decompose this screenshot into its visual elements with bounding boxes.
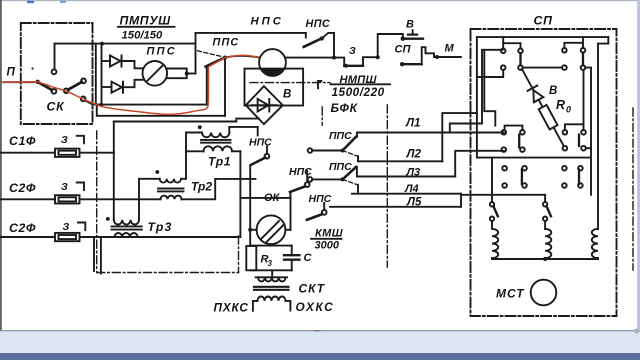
svg-text:ППС: ППС xyxy=(329,130,352,142)
wire vertical x195 xyxy=(195,33,197,74)
NPS machine circle xyxy=(259,49,286,76)
wire top horizontal bus xyxy=(55,43,196,45)
PPS machine circle xyxy=(143,61,168,86)
PPS1 dashed alt xyxy=(343,151,358,157)
SP group2 right link xyxy=(585,68,591,195)
svg-text:0: 0 xyxy=(566,105,571,115)
svg-text:НПС: НПС xyxy=(249,137,272,149)
CK contact e xyxy=(81,97,86,102)
R3 resistor xyxy=(246,246,256,270)
dash-dot vertical x238.5 xyxy=(238,236,240,273)
PPS diagonal xyxy=(146,65,163,82)
SP group1 circle c xyxy=(501,65,506,70)
svg-text:З: З xyxy=(63,221,70,233)
OK machine circle xyxy=(257,215,286,244)
SP group4 circle a xyxy=(563,130,568,135)
SKT bottom right leg xyxy=(286,301,291,311)
bottom dark bar xyxy=(0,353,640,360)
branch to group3 bracket xyxy=(484,50,495,126)
coil2 feeder vertical xyxy=(544,195,546,202)
SP button lower dot xyxy=(400,62,404,66)
svg-text:Л2: Л2 xyxy=(406,148,422,161)
Tr3 right riser xyxy=(138,179,140,220)
PPS2 dashed alt xyxy=(343,179,358,184)
svg-text:СП: СП xyxy=(395,44,412,56)
svg-text:1500/220: 1500/220 xyxy=(332,85,385,99)
V button stem xyxy=(412,30,414,34)
CK contact d xyxy=(81,79,86,84)
Tr1 bottom winding xyxy=(204,146,233,151)
OK left node dot xyxy=(248,228,252,232)
PPS out bracket xyxy=(167,69,187,79)
svg-text:З: З xyxy=(61,134,68,146)
L2 staircase up xyxy=(442,113,477,161)
Tr3 bottom winding xyxy=(115,233,138,237)
wire L1 xyxy=(357,133,504,137)
bracket row1 xyxy=(77,136,84,144)
SP lower right contact circle a xyxy=(562,166,567,171)
junction dot 437 xyxy=(435,55,439,59)
SP group2 circle c xyxy=(562,65,567,70)
svg-text:З: З xyxy=(349,45,356,57)
svg-text:Л1: Л1 xyxy=(405,117,420,130)
SP group2 circle b xyxy=(581,48,586,53)
PPS2 blade xyxy=(343,167,357,179)
svg-text:3000: 3000 xyxy=(315,240,340,252)
bridge diode bar xyxy=(268,99,270,112)
wire row3 left xyxy=(0,236,55,238)
svg-text:В: В xyxy=(549,85,557,97)
window chrome top border xyxy=(0,0,640,1)
KMSh underline xyxy=(311,238,341,240)
wire row2 left xyxy=(0,198,55,200)
svg-text:Тр1: Тр1 xyxy=(208,155,231,169)
diode D1 xyxy=(110,56,121,67)
wire down to CK contact xyxy=(54,44,56,70)
wire y115.8 xyxy=(97,115,225,117)
wire y77 xyxy=(477,70,503,77)
Tr2 secondary out xyxy=(182,179,256,199)
SP group1 plate xyxy=(519,53,521,65)
PPS switch pivot dot xyxy=(223,56,227,60)
coils bottom bus xyxy=(492,257,598,260)
PPS2 input wire xyxy=(312,178,343,180)
PPS2 blade drop xyxy=(356,167,358,177)
SP group1 circle d xyxy=(518,65,523,70)
wire L4 xyxy=(352,193,461,195)
diode D2 xyxy=(112,82,123,93)
PPS1 input wire xyxy=(312,150,343,152)
svg-text:БФК: БФК xyxy=(331,101,359,115)
SP group3 circle d xyxy=(520,147,525,152)
diode V bar xyxy=(528,86,538,91)
NPS contact2 stub up xyxy=(306,171,308,182)
svg-text:МСТ: МСТ xyxy=(496,287,525,301)
OK diagonal 2 xyxy=(266,225,284,243)
junction dot 334 xyxy=(332,56,336,60)
wire vertical x240 xyxy=(239,151,241,237)
svg-text:НПС: НПС xyxy=(251,16,284,28)
Tr1 core xyxy=(201,140,231,143)
coil2 contact top circle xyxy=(543,202,547,206)
V button contact bar xyxy=(403,38,423,40)
wire NPS machine to chain xyxy=(286,58,344,66)
SP lower right contact circle b xyxy=(578,166,583,171)
NPS contact1 blade xyxy=(251,158,265,165)
SP group1 circle a xyxy=(501,49,506,54)
rectifier block box xyxy=(245,69,304,106)
CK contact c xyxy=(64,88,69,93)
dash-dot segment y82.6 xyxy=(250,82,330,84)
SP lower left contact circle a xyxy=(502,166,507,171)
node bus bottom xyxy=(251,269,291,271)
SKT top winding xyxy=(258,277,286,281)
inner right bus vertical xyxy=(597,44,599,229)
diode D1 out wire xyxy=(122,61,143,68)
bridge diamond xyxy=(246,86,283,124)
PPS switch blade xyxy=(206,58,225,67)
SKT core xyxy=(254,287,289,290)
svg-text:СП: СП xyxy=(534,14,554,28)
inner bottom bus y194.8 xyxy=(461,194,545,196)
solid wire stub under Tr3 xyxy=(93,237,95,271)
wire row1 right xyxy=(80,152,114,154)
diode D2 out wire xyxy=(123,80,143,87)
svg-text:3: 3 xyxy=(268,259,273,268)
SP group1 stem xyxy=(502,37,504,43)
SP group4 bracket xyxy=(565,124,584,130)
coil1 contact blade xyxy=(494,206,498,216)
wire P input xyxy=(4,81,35,83)
SP group2 stem xyxy=(582,37,584,43)
coil1 feeder vertical xyxy=(491,158,493,202)
svg-text:ППС: ППС xyxy=(213,37,240,49)
svg-text:М: М xyxy=(445,43,455,55)
PPS1 pivot dot xyxy=(341,149,345,153)
wire row3 corner down xyxy=(100,237,102,274)
SP group3 plate xyxy=(518,135,520,148)
fuse F3 xyxy=(55,233,80,241)
SP lower left contact circle c xyxy=(502,183,507,188)
NPS contact1 circle xyxy=(265,154,270,159)
junction dot xyxy=(99,103,103,107)
CK exit stub xyxy=(85,101,93,105)
SP group2 circle d xyxy=(581,65,586,70)
OK left lead xyxy=(250,229,256,231)
wire pivot drop x225 xyxy=(224,58,226,116)
inductor coil3 xyxy=(592,229,598,258)
wire L2 xyxy=(358,160,442,162)
inner bus right corner xyxy=(598,37,608,44)
junction dot 345 xyxy=(344,64,348,68)
Tr2 top right lead xyxy=(181,178,186,180)
bottom light panel xyxy=(0,331,640,353)
Tr1 polarity dot xyxy=(198,125,202,129)
svg-text:КМШ: КМШ xyxy=(315,228,343,240)
Tr1 bottom left lead xyxy=(186,150,204,152)
dash-dot horizontal y272.5 xyxy=(97,272,239,274)
svg-text:R: R xyxy=(556,98,565,112)
NPS contact2 circle xyxy=(305,182,310,187)
OK right lead xyxy=(285,229,290,231)
junction node xyxy=(100,42,104,46)
L1 staircase up xyxy=(450,50,503,133)
coil1 contact top circle xyxy=(490,202,494,206)
wire y126.9 to NPS1 xyxy=(229,126,257,128)
SP button lower bar xyxy=(402,63,422,65)
NPS machine filled segment xyxy=(261,70,284,76)
wire row1 left xyxy=(0,152,55,154)
SP group4 right link xyxy=(586,147,591,149)
svg-text:ППС: ППС xyxy=(147,46,177,58)
inner mid bus y157.6 xyxy=(477,157,590,159)
NPS contact3 stub xyxy=(323,203,325,210)
Tr2 core xyxy=(158,189,184,192)
resistor R0 body xyxy=(539,105,558,130)
diode D1 lead xyxy=(102,60,111,62)
plate lower left xyxy=(521,170,523,185)
dash-dot vertical x633 xyxy=(632,108,634,270)
wire vertical x95.8 xyxy=(95,44,97,105)
capacitor C plates xyxy=(284,255,300,260)
svg-text:З: З xyxy=(61,181,68,193)
NPS contact3 blade xyxy=(307,214,322,220)
PPS1 blade xyxy=(343,137,357,151)
link Tr1 to Tr2 vertical x186 xyxy=(185,133,187,179)
dash-dot box CK xyxy=(21,23,93,124)
capacitor C top lead xyxy=(291,246,293,256)
svg-text:Тр3: Тр3 xyxy=(148,220,173,234)
SP group2 bracket xyxy=(564,43,583,48)
svg-text:П: П xyxy=(7,66,16,79)
svg-text:НПС: НПС xyxy=(309,193,332,205)
PPS blade drop black xyxy=(206,67,208,105)
diode D2 lead xyxy=(102,86,112,88)
Tr1 right riser xyxy=(228,127,230,133)
svg-text:С: С xyxy=(304,252,313,264)
inner top bus xyxy=(477,36,608,38)
wire pivot to NPS machine xyxy=(225,56,259,58)
NPS contact3 circle xyxy=(322,210,327,215)
inductor coil2 xyxy=(545,229,551,258)
node bus top R3 C xyxy=(251,245,291,247)
SP lower right contact circle d xyxy=(578,183,583,188)
OK bottom lead xyxy=(270,244,272,245)
junction dot 377 xyxy=(376,55,380,59)
PPS2 alt drop xyxy=(357,185,359,194)
Tr3 left riser xyxy=(113,122,115,220)
wire row3 bus xyxy=(80,236,241,238)
wire row2 right xyxy=(80,198,161,200)
V button plunger bar xyxy=(408,33,417,35)
svg-text:150/150: 150/150 xyxy=(122,30,164,42)
diode D1 cathode bar xyxy=(121,56,123,67)
bridge diode lead xyxy=(252,104,277,106)
bottom splitter line xyxy=(0,330,640,331)
dash-dot box SP xyxy=(471,29,617,316)
OK diagonal 1 xyxy=(262,221,280,239)
NPS switch pivot dot xyxy=(320,36,324,40)
NMPSh underline xyxy=(331,83,391,85)
SP lower left contact circle d xyxy=(522,183,527,188)
L4 L5 joint xyxy=(460,194,462,207)
SP button step wiring xyxy=(422,47,461,64)
Tr2 top winding xyxy=(160,179,181,183)
SP group3 bracket xyxy=(505,126,523,130)
svg-text:СК: СК xyxy=(47,100,66,114)
riser x334 xyxy=(333,33,335,58)
SP group2 plate xyxy=(582,53,584,66)
wire L5 xyxy=(330,206,461,208)
dash-dot vertical x96.7 xyxy=(96,131,98,273)
SKT transformer top lead bar xyxy=(256,276,288,278)
diode column vertical xyxy=(101,44,103,105)
NPS1 stub xyxy=(257,127,259,136)
svg-text:ОХКС: ОХКС xyxy=(296,300,335,314)
diode D2 cathode bar xyxy=(122,82,124,93)
SP group3 circle c xyxy=(502,147,507,152)
coil2 top lead xyxy=(544,221,546,229)
svg-text:ПХКС: ПХКС xyxy=(214,301,249,315)
diode V triangle xyxy=(533,90,543,102)
SP group4 circle b xyxy=(581,130,586,135)
NPS switch feed stub xyxy=(305,33,307,38)
coil2 contact bottom circle xyxy=(543,217,547,221)
wire riser x363 xyxy=(363,57,378,66)
PPS2 pivot dot xyxy=(341,177,345,181)
SP group1-2 link xyxy=(523,67,562,69)
svg-text:С1Ф: С1Ф xyxy=(9,134,36,148)
resize handle dot right xyxy=(634,328,639,333)
PMPUSh underline xyxy=(118,26,175,28)
PPS switch dashed alt xyxy=(198,51,223,57)
svg-text:С2Ф: С2Ф xyxy=(9,221,36,235)
inner left bus vertical xyxy=(476,37,478,158)
PPS out node xyxy=(185,72,189,76)
svg-text:СКТ: СКТ xyxy=(299,282,326,296)
wire y65.8 thick xyxy=(344,65,363,67)
svg-text:Тр2: Тр2 xyxy=(191,180,212,194)
NPS contact2 blade xyxy=(290,186,305,192)
SP group2 circle a xyxy=(562,48,567,53)
diagonal VD wire xyxy=(522,69,564,146)
PPS1 input circle xyxy=(308,148,313,153)
CK switch contact a xyxy=(35,80,39,84)
L3 staircase up xyxy=(455,151,504,177)
inductor coil1 xyxy=(492,229,498,258)
wire L3 xyxy=(357,176,455,178)
blue speck 2 xyxy=(60,1,66,3)
splitter grip dots xyxy=(314,330,321,333)
Tr3 top winding xyxy=(114,220,139,225)
svg-text:С2Ф: С2Ф xyxy=(9,181,36,195)
SP group4 plate xyxy=(578,135,580,146)
dash-dot vertical x387 xyxy=(386,105,388,267)
Tr1 bottom right lead xyxy=(232,150,240,152)
window chrome right border xyxy=(637,0,640,332)
dash-dot stub x322 xyxy=(321,107,323,125)
wire bottom horizontal y104.6 xyxy=(93,104,208,106)
svg-text:В: В xyxy=(283,89,291,101)
CK blade 2 xyxy=(68,82,82,90)
Tr3 core xyxy=(112,226,142,229)
wire y198 xyxy=(240,197,290,199)
SP group1 bracket xyxy=(503,43,520,48)
bracket row3 xyxy=(78,223,85,231)
SKT bottom winding xyxy=(258,297,286,301)
Tr2 top lead xyxy=(140,178,160,180)
SP group1 circle b xyxy=(518,49,523,54)
Tr2 bottom winding xyxy=(161,196,182,200)
SP group4 circle d xyxy=(581,146,586,151)
SKT top lead xyxy=(271,270,273,277)
contact circle CK top xyxy=(52,69,57,74)
NPS switch out bend xyxy=(323,33,335,38)
SKT bottom left leg xyxy=(253,301,258,311)
SP group4 stem xyxy=(583,70,585,124)
fuse F1 xyxy=(55,149,80,157)
coil2 contact blade xyxy=(547,206,551,216)
bridge diode xyxy=(258,99,269,112)
svg-text:НПС: НПС xyxy=(306,18,331,30)
fuse F2 xyxy=(55,195,80,203)
capacitor C bottom lead xyxy=(291,260,293,271)
SP lower right contact circle c xyxy=(562,183,567,188)
wire top bus y33 xyxy=(196,32,306,34)
wire to V button xyxy=(378,34,403,57)
Tr3 polarity dot xyxy=(106,217,110,221)
window chrome left border xyxy=(0,0,2,332)
wire to NPS contact1 xyxy=(266,147,268,154)
svg-text:В: В xyxy=(406,19,414,31)
wire OK right up to NPS2 xyxy=(290,192,292,230)
transformer Tr1 top lead xyxy=(186,132,202,134)
SP group4 circle c xyxy=(563,146,568,151)
coil1 top lead xyxy=(491,221,493,229)
PPS1 alt drop xyxy=(357,156,359,161)
CK contact b xyxy=(52,89,57,94)
coil bus junction dot xyxy=(543,257,547,261)
svg-text:ПМПУШ: ПМПУШ xyxy=(120,14,172,28)
red wire overlay xyxy=(2,55,259,114)
blue speck top-left xyxy=(27,1,34,3)
NPS switch blade xyxy=(304,39,321,47)
wire node to vertical xyxy=(187,73,196,75)
Tr2 polarity dot xyxy=(155,170,159,174)
CK blade 1 xyxy=(40,83,53,90)
svg-text:НПС: НПС xyxy=(289,166,312,178)
V button contact dot xyxy=(401,37,405,41)
svg-text:ППС: ППС xyxy=(329,161,352,173)
wire vertical x250 xyxy=(249,166,251,246)
wire primaries to bridge xyxy=(114,119,259,122)
MST motor circle xyxy=(531,280,557,306)
coil1 contact bottom circle xyxy=(490,217,494,221)
PPS2 input circle xyxy=(308,177,313,182)
SP group3 circle a xyxy=(502,130,507,135)
SP lower left contact circle b xyxy=(522,166,527,171)
bracket left of NMPSh xyxy=(318,81,321,88)
bracket row2 xyxy=(77,183,84,191)
stray mark xyxy=(31,67,33,69)
Tr1 top winding xyxy=(202,133,229,138)
SP group3 circle b xyxy=(520,130,525,135)
plate lower right xyxy=(578,170,580,185)
wire riser x96.8 xyxy=(96,105,98,116)
